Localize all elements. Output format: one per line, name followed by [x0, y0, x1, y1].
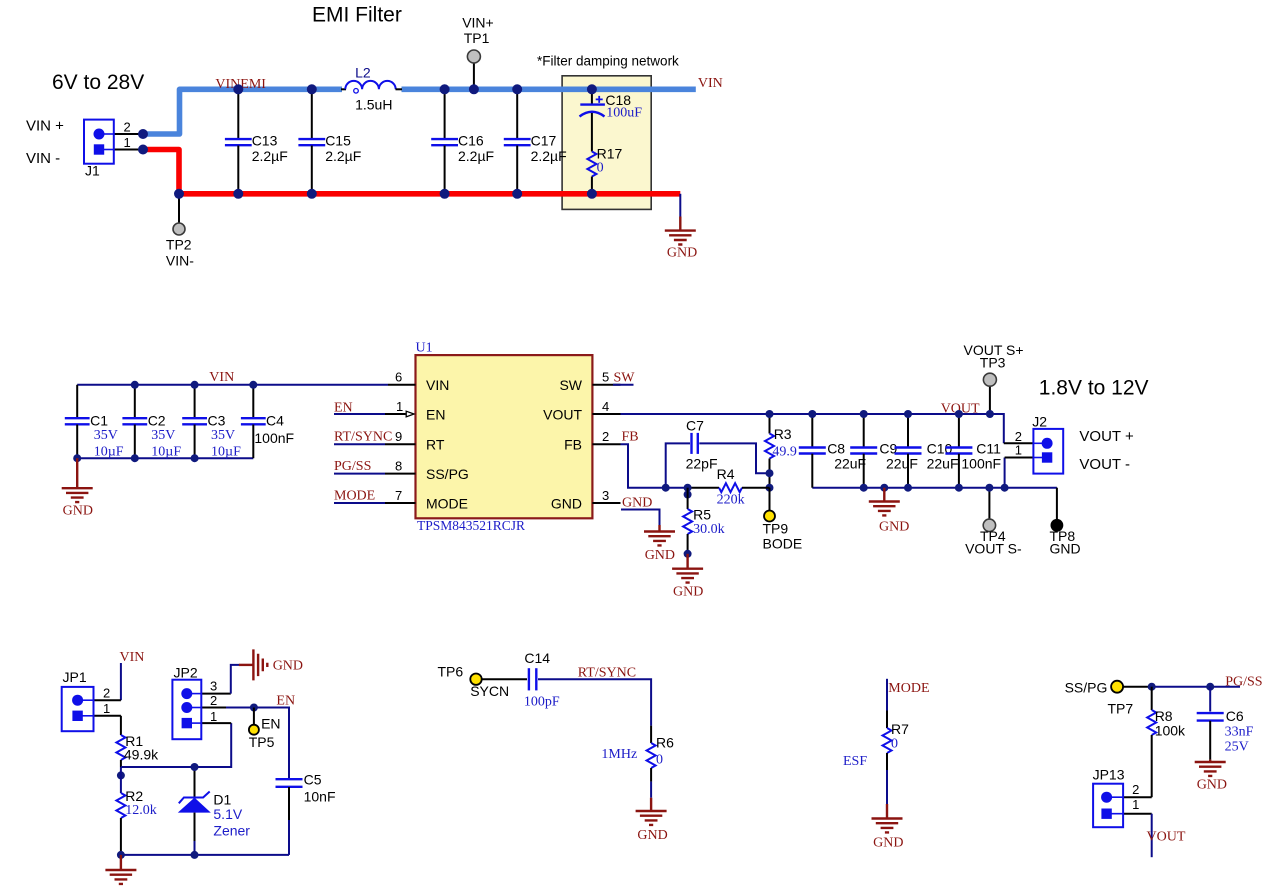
ground (output caps)	[880, 484, 888, 492]
junction: C2 / VIN	[131, 381, 139, 389]
svg-text:GND: GND	[1197, 778, 1227, 793]
ground (top right)	[679, 217, 681, 230]
svg-text:220k: 220k	[717, 493, 745, 508]
wire: FB net from pin 2	[621, 444, 689, 488]
U1 pin 9 RT stub	[385, 443, 416, 445]
svg-text:C3: C3	[208, 413, 226, 429]
test point TP5 EN	[249, 708, 281, 751]
resistor R8	[1147, 687, 1186, 798]
svg-text:TP1: TP1	[464, 30, 490, 46]
svg-text:100pF: 100pF	[524, 695, 560, 710]
svg-text:100nF: 100nF	[254, 430, 294, 446]
ground (C6)	[1209, 760, 1211, 762]
svg-text:10µF: 10µF	[94, 445, 124, 460]
ground (R5)	[686, 554, 688, 568]
wire: RT/SYNC net	[538, 679, 651, 726]
svg-text:22uF: 22uF	[834, 456, 866, 472]
junction: C15 / VIN-	[307, 189, 317, 199]
wire: VINEMI thick blue rail (right of L2) to VIN	[402, 87, 696, 93]
svg-text:8: 8	[395, 459, 402, 474]
svg-text:TP6: TP6	[438, 664, 464, 680]
svg-text:C4: C4	[266, 413, 284, 429]
svg-text:35V: 35V	[151, 428, 175, 443]
svg-text:100nF: 100nF	[961, 456, 1001, 472]
svg-text:FB: FB	[622, 430, 639, 445]
svg-text:VIN +: VIN +	[26, 118, 64, 135]
U1 pin 5 SW stub	[592, 384, 620, 386]
svg-text:1.8V to 12V: 1.8V to 12V	[1039, 376, 1149, 399]
svg-text:0: 0	[597, 161, 604, 176]
junction: TP5 / EN	[250, 704, 258, 712]
svg-text:GND: GND	[637, 828, 667, 843]
wire: R1/R2 node to D1/JP2	[121, 723, 231, 767]
svg-text:1: 1	[124, 135, 131, 150]
svg-text:SS/PG: SS/PG	[1065, 680, 1108, 696]
svg-text:VIN -: VIN -	[26, 150, 60, 167]
svg-text:GND: GND	[63, 504, 93, 519]
svg-text:10nF: 10nF	[304, 789, 336, 805]
svg-text:2.2µF: 2.2µF	[531, 148, 567, 164]
svg-text:EN: EN	[426, 407, 445, 423]
svg-text:BODE: BODE	[763, 536, 803, 552]
svg-text:10µF: 10µF	[211, 445, 241, 460]
svg-text:TP3: TP3	[980, 354, 1006, 370]
junction: R5 / FB line	[684, 484, 692, 492]
junction: R2 / gnd wire	[117, 851, 125, 859]
svg-text:R3: R3	[774, 426, 792, 442]
op-amp-module U1 TPSM843521RCJR body	[416, 355, 593, 518]
svg-text:0: 0	[656, 753, 663, 768]
svg-text:VOUT -: VOUT -	[1079, 456, 1130, 473]
svg-text:1: 1	[396, 399, 403, 414]
wire: VIN- thick red rail	[143, 150, 680, 194]
svg-text:RT: RT	[426, 437, 445, 453]
wire: pin3 GND to ground symbol	[621, 510, 660, 526]
junction: J1 pin1 / VIN-	[138, 145, 148, 155]
svg-text:R5: R5	[693, 507, 711, 523]
junction: C18 / VINEMI	[587, 84, 597, 94]
wire: VINEMI thick blue rail (left of L2)	[143, 89, 342, 134]
junction: C3 / gnd rail	[191, 454, 199, 462]
svg-text:RT/SYNC: RT/SYNC	[334, 430, 392, 445]
svg-text:0: 0	[891, 737, 898, 752]
svg-text:SYCN: SYCN	[470, 683, 509, 699]
capacitor C18 (polarized)	[580, 92, 643, 152]
svg-text:SW: SW	[614, 371, 636, 386]
junction: C10 / VOUT	[904, 410, 912, 418]
svg-text:EN: EN	[276, 694, 295, 709]
svg-text:1: 1	[1015, 443, 1022, 458]
test point TP6 SYCN	[438, 664, 510, 700]
junction: R17 / VIN-	[587, 189, 597, 199]
svg-text:6V to 28V: 6V to 28V	[52, 71, 144, 94]
junction: D1 / node wire	[191, 763, 199, 771]
capacitor C11	[945, 414, 1001, 488]
svg-text:2.2µF: 2.2µF	[252, 148, 288, 164]
svg-text:VIN: VIN	[120, 650, 145, 665]
svg-text:R2: R2	[125, 788, 143, 804]
capacitor C13	[225, 92, 288, 192]
svg-text:TPSM843521RCJR: TPSM843521RCJR	[417, 518, 525, 533]
svg-text:L2: L2	[355, 65, 371, 81]
connector J2	[1015, 414, 1063, 474]
svg-text:22pF: 22pF	[686, 456, 718, 472]
junction: C9 / gnd rail	[860, 484, 868, 492]
ground (R7)	[886, 804, 888, 818]
svg-text:MODE: MODE	[334, 488, 375, 503]
wire: output gnd rail	[812, 487, 1057, 489]
svg-text:5: 5	[602, 370, 609, 385]
capacitor C15	[298, 92, 361, 192]
test point TP1 VIN+	[462, 15, 494, 90]
junction: TP4 / gnd rail	[985, 484, 993, 492]
connector JP2	[172, 665, 231, 740]
svg-text:GND: GND	[645, 548, 675, 563]
inductor L2	[341, 65, 402, 113]
capacitor C5	[276, 772, 336, 855]
svg-text:5.1V: 5.1V	[213, 806, 242, 822]
ground (R6)	[650, 798, 652, 811]
svg-text:TP7: TP7	[1108, 701, 1134, 717]
resistor R7	[843, 711, 909, 805]
svg-text:JP13: JP13	[1093, 767, 1125, 783]
svg-text:22uF: 22uF	[886, 456, 918, 472]
wire: SW net stub underline	[613, 384, 634, 386]
resistor R6	[601, 726, 674, 798]
wire: J2 pin 1 stub	[1005, 457, 1034, 459]
resistor R3	[765, 414, 797, 488]
svg-text:4: 4	[602, 399, 609, 414]
test point TP9 BODE	[763, 488, 803, 552]
test point TP7 SS/PG	[1065, 680, 1134, 717]
svg-text:R7: R7	[891, 721, 909, 737]
capacitor C17	[504, 92, 567, 192]
svg-text:TP2: TP2	[166, 237, 192, 253]
junction: C7 / FB	[662, 484, 670, 492]
junction: C16 / VINEMI	[440, 84, 450, 94]
U1 pin 8 SS/PG stub	[385, 473, 416, 475]
svg-text:33nF: 33nF	[1225, 725, 1254, 740]
svg-text:2: 2	[124, 120, 131, 135]
svg-text:GND: GND	[873, 836, 903, 851]
wire: VIN- to ground	[679, 194, 681, 217]
svg-text:C6: C6	[1226, 708, 1244, 724]
svg-text:35V: 35V	[211, 428, 235, 443]
svg-text:2.2µF: 2.2µF	[325, 148, 361, 164]
svg-text:1.5uH: 1.5uH	[355, 97, 392, 113]
svg-text:3: 3	[210, 679, 217, 694]
junction: C2 / gnd rail	[131, 454, 139, 462]
svg-text:1: 1	[1132, 797, 1139, 812]
svg-text:C13: C13	[252, 133, 278, 149]
wire: bottom gnd wire (EN divider)	[121, 854, 289, 856]
svg-text:SW: SW	[559, 377, 582, 393]
svg-text:C16: C16	[458, 133, 484, 149]
svg-text:100uF: 100uF	[606, 105, 642, 120]
test point TP2 VIN-	[166, 196, 194, 269]
junction: TP1 / VINEMI	[469, 84, 479, 94]
svg-text:VIN+: VIN+	[462, 15, 494, 31]
capacitor C10	[895, 414, 959, 488]
svg-text:7: 7	[395, 488, 402, 503]
capacitor C4	[241, 385, 294, 458]
capacitor C1	[65, 385, 124, 460]
svg-text:R6: R6	[656, 735, 674, 751]
capacitor C8	[799, 414, 866, 488]
svg-text:TP9: TP9	[763, 521, 789, 537]
svg-text:JP1: JP1	[63, 669, 87, 685]
svg-text:VIN: VIN	[209, 370, 234, 385]
svg-text:9: 9	[395, 429, 402, 444]
svg-text:VIN: VIN	[698, 76, 723, 91]
junction: R3 / VOUT rail	[766, 410, 774, 418]
svg-text:C7: C7	[686, 418, 704, 434]
wire: input caps bottom rail	[77, 457, 253, 459]
junction: C11 / gnd rail	[955, 484, 963, 492]
junction: C13 / VINEMI	[233, 84, 243, 94]
svg-text:2: 2	[602, 429, 609, 444]
U1 pin 2 FB stub	[592, 443, 620, 445]
svg-text:ESF: ESF	[843, 754, 867, 769]
junction: C15 / VINEMI	[307, 84, 317, 94]
junction: D1 / gnd wire	[191, 851, 199, 859]
svg-text:49.9k: 49.9k	[124, 747, 159, 763]
svg-text:35V: 35V	[94, 428, 118, 443]
svg-text:12.0k: 12.0k	[125, 803, 157, 818]
svg-text:RT/SYNC: RT/SYNC	[578, 665, 636, 680]
junction: C4 / VIN	[249, 381, 257, 389]
wire: J2 pin1 to gnd rail	[1004, 458, 1006, 488]
junction: C11 / VOUT	[955, 410, 963, 418]
junction: R1 / R2 node	[117, 771, 125, 779]
ground (EN divider)	[120, 855, 122, 869]
wire: PG/SS net to pin 8	[334, 473, 385, 475]
test point TP8 GND	[1050, 488, 1081, 557]
svg-text:C5: C5	[304, 772, 322, 788]
connector JP13	[1093, 767, 1152, 828]
svg-text:VIN-: VIN-	[166, 253, 194, 269]
svg-text:VOUT: VOUT	[543, 407, 582, 423]
junction: R8 / PG/SS	[1148, 683, 1156, 691]
svg-text:30.0k: 30.0k	[693, 522, 725, 537]
svg-text:1: 1	[210, 709, 217, 724]
svg-text:VOUT S-: VOUT S-	[965, 541, 1022, 557]
junction: C16 / VIN-	[440, 189, 450, 199]
svg-text:C2: C2	[148, 413, 166, 429]
svg-text:Zener: Zener	[213, 823, 250, 839]
wire: MODE net to pin 7	[334, 502, 385, 504]
svg-text:2: 2	[210, 693, 217, 708]
junction: C17 / VINEMI	[512, 84, 522, 94]
svg-text:3: 3	[602, 488, 609, 503]
svg-text:VOUT: VOUT	[1147, 830, 1186, 845]
svg-text:C8: C8	[827, 441, 845, 457]
junction: C10 / gnd rail	[904, 484, 912, 492]
capacitor C2	[122, 385, 181, 460]
svg-text:GND: GND	[551, 496, 582, 512]
svg-text:C11: C11	[976, 441, 1001, 457]
svg-text:MODE: MODE	[426, 496, 468, 512]
svg-text:C15: C15	[325, 133, 351, 149]
junction: C17 / VIN-	[512, 189, 522, 199]
U1 pin 6 VIN stub	[388, 384, 416, 386]
svg-text:GND: GND	[273, 659, 303, 674]
wire: JP2 pin3 to gnd	[231, 665, 240, 694]
svg-text:C14: C14	[524, 650, 550, 666]
svg-text:R4: R4	[717, 466, 735, 482]
svg-text:100k: 100k	[1155, 723, 1186, 739]
junction: J2 pin1 branch / gnd rail	[1001, 484, 1009, 492]
wire: EN net to pin 1	[334, 413, 385, 415]
junction: R5 bottom	[684, 550, 692, 558]
svg-text:22uF: 22uF	[927, 456, 959, 472]
resistor R5	[683, 488, 725, 554]
wire: JP13 pin1 to VOUT	[1151, 814, 1153, 858]
svg-text:49.9: 49.9	[772, 445, 797, 460]
wire: VIN to JP1 pin 2	[120, 663, 122, 700]
svg-text:GND: GND	[622, 495, 652, 510]
svg-text:R17: R17	[597, 146, 623, 162]
test point TP3 VOUT S+	[964, 342, 1024, 414]
ground (JP2 pin3, sideways)	[239, 664, 253, 666]
junction: C13 / VIN-	[233, 189, 243, 199]
svg-text:VIN: VIN	[426, 377, 449, 393]
svg-text:EN: EN	[261, 716, 280, 732]
svg-text:U1: U1	[416, 341, 433, 356]
svg-text:PG/SS: PG/SS	[1225, 675, 1262, 690]
capacitor C3	[182, 385, 241, 460]
junction: R3 / C7 branch	[766, 469, 774, 477]
diode D1 (zener)	[178, 767, 251, 855]
svg-text:GND: GND	[667, 246, 697, 261]
junction: R3 / R4 / TP9	[766, 484, 774, 492]
capacitor C7	[666, 418, 770, 488]
svg-text:C17: C17	[531, 133, 557, 149]
svg-text:25V: 25V	[1225, 740, 1249, 755]
svg-text:J2: J2	[1032, 414, 1047, 430]
test point TP4 VOUT S-	[965, 488, 1022, 557]
U1 pin 7 MODE stub	[385, 502, 416, 504]
junction: J1 pin2 / VINEMI	[138, 129, 148, 139]
svg-text:1: 1	[103, 701, 110, 716]
svg-text:FB: FB	[564, 437, 582, 453]
wire: MODE net	[886, 679, 888, 711]
capacitor C6	[1197, 687, 1254, 760]
svg-text:PG/SS: PG/SS	[334, 459, 371, 474]
wire: EN net from JP2 pin2	[226, 708, 289, 780]
resistor R17	[587, 146, 622, 192]
junction: C6 / PG/SS	[1206, 683, 1214, 691]
svg-text:10µF: 10µF	[151, 445, 181, 460]
wire: VIN top rail of input caps	[77, 384, 388, 386]
svg-text:TP5: TP5	[249, 734, 275, 750]
svg-text:*Filter damping network: *Filter damping network	[537, 54, 679, 69]
svg-text:SS/PG: SS/PG	[426, 466, 469, 482]
svg-text:J1: J1	[85, 163, 100, 179]
capacitor C14	[482, 650, 560, 710]
junction: C9 / VOUT	[860, 410, 868, 418]
connector J1	[26, 118, 143, 179]
svg-text:2: 2	[1132, 782, 1139, 797]
box: filter damping network	[562, 76, 651, 210]
svg-text:1MHz: 1MHz	[601, 747, 637, 762]
ground (input caps)	[76, 458, 78, 487]
capacitor C9	[850, 414, 918, 488]
U1 pin 1 EN stub	[385, 413, 406, 415]
svg-text:VOUT +: VOUT +	[1079, 428, 1134, 445]
capacitor C16	[431, 92, 494, 192]
junction: C3 / VIN	[191, 381, 199, 389]
junction: TP3 / VOUT	[986, 410, 994, 418]
svg-text:6: 6	[395, 370, 402, 385]
wire: VOUT rail from pin 4 to J2	[621, 414, 1004, 443]
wire: J2 pin 2 stub	[1004, 442, 1034, 444]
U1 pin 4 VOUT stub	[592, 413, 620, 415]
wire: PG/SS net	[1124, 686, 1152, 688]
resistor R4	[688, 466, 770, 508]
junction: C8 / VOUT	[808, 410, 816, 418]
junction: TP2 / VIN-	[174, 189, 184, 199]
ground (U1 pin 3)	[658, 525, 660, 531]
svg-text:GND: GND	[1050, 541, 1081, 557]
resistor R2	[116, 788, 156, 855]
svg-text:GND: GND	[673, 585, 703, 600]
connector JP1	[62, 669, 121, 731]
svg-text:2: 2	[103, 686, 110, 701]
svg-text:JP2: JP2	[174, 665, 198, 681]
junction: C1 / gnd stem	[73, 454, 81, 462]
svg-text:C1: C1	[90, 413, 108, 429]
svg-text:MODE: MODE	[888, 681, 929, 696]
wire: RT/SYNC net to pin 9	[334, 443, 385, 445]
resistor R1	[116, 716, 159, 767]
svg-text:2.2µF: 2.2µF	[458, 148, 494, 164]
svg-text:GND: GND	[879, 520, 909, 535]
svg-text:EMI Filter: EMI Filter	[312, 4, 402, 27]
U1 pin 3 GND stub	[592, 502, 620, 504]
